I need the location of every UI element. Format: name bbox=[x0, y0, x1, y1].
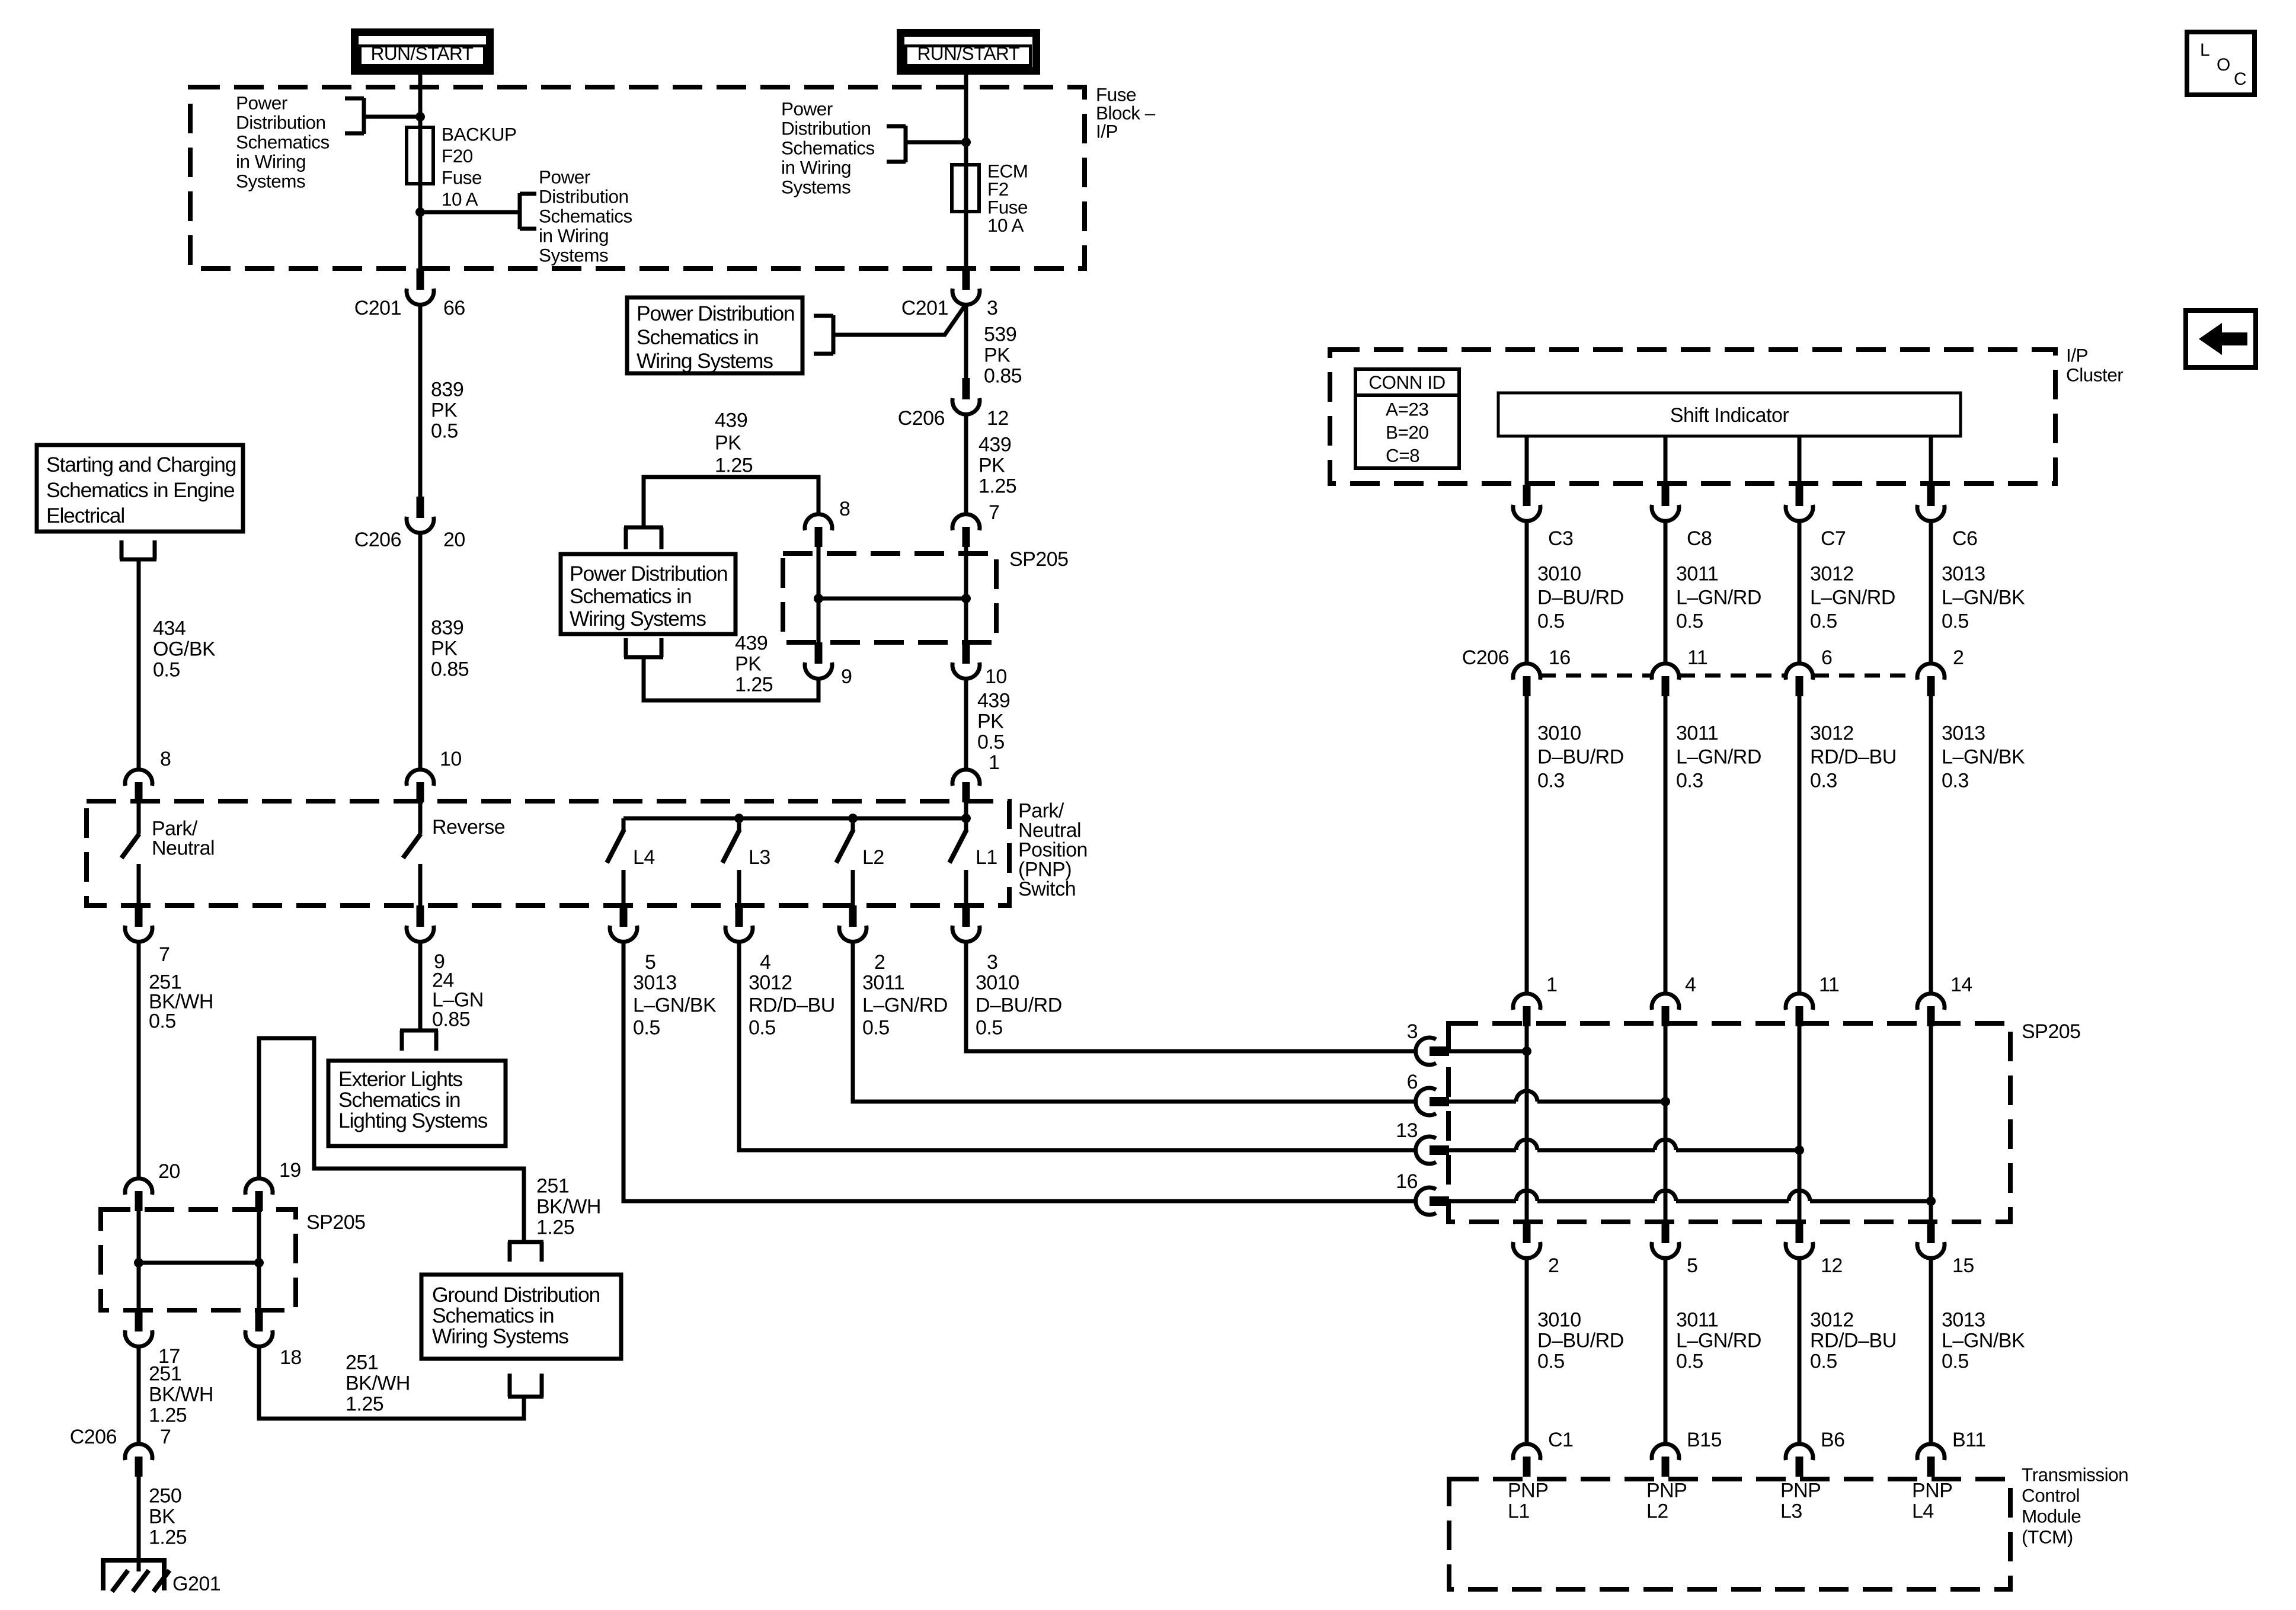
svg-text:PNP: PNP bbox=[1508, 1480, 1548, 1502]
svg-text:6: 6 bbox=[1407, 1071, 1418, 1093]
svg-text:1: 1 bbox=[989, 751, 999, 774]
connector C206 pin 16 (cluster row) bbox=[1513, 664, 1540, 680]
node splice row13 bbox=[1795, 1145, 1804, 1155]
svg-text:Cluster: Cluster bbox=[2066, 364, 2123, 386]
splice crossbar SP205 left bbox=[139, 1261, 259, 1265]
run/start label box (right) bbox=[901, 33, 1037, 71]
connector pin 19 into SP205 left bbox=[245, 1179, 273, 1195]
node bus at L1 bbox=[961, 814, 971, 823]
svg-text:I/P: I/P bbox=[1096, 121, 1118, 142]
svg-text:8: 8 bbox=[839, 498, 850, 520]
svg-text:Schematics in Engine: Schematics in Engine bbox=[46, 478, 235, 502]
switch L2 upper stub bbox=[851, 818, 855, 832]
wire through SP205 col 4 bbox=[1929, 1023, 1933, 1222]
svg-text:3011: 3011 bbox=[1676, 1309, 1718, 1331]
svg-text:19: 19 bbox=[279, 1159, 301, 1182]
svg-text:PK: PK bbox=[984, 344, 1011, 367]
svg-text:3011: 3011 bbox=[1676, 722, 1718, 745]
svg-text:Power: Power bbox=[236, 92, 287, 114]
svg-text:3010: 3010 bbox=[976, 972, 1019, 994]
svg-text:PK: PK bbox=[431, 638, 458, 660]
connector pin 1 into PNP switch bbox=[952, 770, 980, 786]
svg-text:Systems: Systems bbox=[539, 245, 608, 266]
svg-text:RUN/START: RUN/START bbox=[371, 43, 474, 64]
bracket to Power Distribution (right fuse) bbox=[904, 126, 908, 162]
svg-text:539: 539 bbox=[984, 324, 1016, 346]
wire 3010 D–BU/RD 0.5 (TCM) bbox=[1525, 1258, 1529, 1445]
wire through SP205 col 1 bbox=[1525, 1023, 1529, 1222]
svg-text:0.5: 0.5 bbox=[1537, 1350, 1565, 1373]
svg-text:CONN ID: CONN ID bbox=[1368, 372, 1446, 393]
wire 3012 L–GN/RD 0.5 (cluster) bbox=[1798, 521, 1802, 665]
connector pin 15 from SP205 bbox=[1927, 1222, 1935, 1243]
svg-text:Schematics in: Schematics in bbox=[338, 1088, 460, 1112]
svg-text:D–BU/RD: D–BU/RD bbox=[1537, 1330, 1624, 1352]
wire 839 PK 0.85 bbox=[418, 533, 423, 771]
svg-text:Neutral: Neutral bbox=[152, 837, 215, 860]
svg-text:1.25: 1.25 bbox=[149, 1526, 187, 1549]
switch L3 upper stub bbox=[737, 818, 741, 832]
svg-text:C201: C201 bbox=[901, 297, 948, 319]
svg-text:Exterior Lights: Exterior Lights bbox=[338, 1067, 462, 1091]
bus wire linking L1-L4 contacts bbox=[623, 817, 966, 821]
wire 3012 RD/D-BU 0.5 from L3 bbox=[739, 942, 1416, 1150]
svg-text:Module: Module bbox=[2022, 1506, 2081, 1527]
svg-text:Schematics in: Schematics in bbox=[432, 1304, 554, 1327]
svg-text:8: 8 bbox=[160, 748, 171, 770]
svg-text:Distribution: Distribution bbox=[236, 112, 326, 133]
svg-text:Schematics: Schematics bbox=[539, 206, 632, 227]
switch Reverse upper contact bbox=[418, 804, 423, 834]
svg-text:A=23: A=23 bbox=[1386, 399, 1428, 420]
connector TCM pin C1 bbox=[1513, 1444, 1540, 1460]
svg-text:D–BU/RD: D–BU/RD bbox=[1537, 746, 1624, 769]
connector pin 8 into SP205 bbox=[805, 514, 832, 530]
wire 434 OG/BK 0.5 bbox=[137, 559, 141, 771]
svg-text:0.5: 0.5 bbox=[1676, 1350, 1703, 1373]
svg-text:439: 439 bbox=[735, 632, 768, 655]
svg-text:PNP: PNP bbox=[1780, 1480, 1821, 1502]
svg-text:PK: PK bbox=[977, 710, 1004, 733]
splice row 13 to column 3 bbox=[1449, 1148, 1516, 1153]
svg-text:L4: L4 bbox=[1912, 1500, 1934, 1523]
svg-text:3: 3 bbox=[1407, 1020, 1418, 1043]
switch L2 lower contact bbox=[851, 870, 855, 907]
svg-text:Schematics: Schematics bbox=[236, 132, 330, 153]
node splice lower left A bbox=[134, 1258, 143, 1267]
wire 251 BK/WH 1.25 (pin 18 to ground box) bbox=[259, 1346, 524, 1419]
I/P cluster dashed box bbox=[1330, 350, 2055, 484]
svg-text:439: 439 bbox=[977, 690, 1010, 712]
svg-text:0.3: 0.3 bbox=[1676, 770, 1703, 792]
svg-text:L–GN/RD: L–GN/RD bbox=[1676, 587, 1761, 609]
svg-text:L4: L4 bbox=[633, 846, 655, 869]
connector pin 10 from SP205 bbox=[962, 642, 970, 664]
connector C6 below cluster bbox=[1927, 485, 1935, 506]
switch L4 blade bbox=[607, 830, 624, 863]
svg-text:PNP: PNP bbox=[1646, 1480, 1687, 1502]
pointer arrow box bbox=[2186, 311, 2256, 367]
wire 3013 L-GN/BK 0.5 from L4 bbox=[623, 942, 1416, 1201]
switch L4 lower contact bbox=[622, 870, 626, 907]
wire shift indicator leg C6 bbox=[1929, 436, 1933, 486]
svg-text:Control: Control bbox=[2022, 1485, 2080, 1506]
connector C201 pin 66 bbox=[417, 268, 424, 290]
svg-text:B11: B11 bbox=[1952, 1429, 1985, 1451]
connector C206 pin 12 bbox=[962, 378, 970, 399]
connector C206 pin 7 (ground col) bbox=[125, 1444, 152, 1460]
box Power Distribution Schematics in Wiring Systems (A) bbox=[627, 297, 802, 373]
svg-text:16: 16 bbox=[1549, 646, 1571, 669]
wire 439 PK 1.25 (to SP205) bbox=[964, 414, 968, 516]
svg-text:PNP: PNP bbox=[1912, 1480, 1952, 1502]
svg-text:3011: 3011 bbox=[862, 972, 904, 994]
connector TCM pin B15 bbox=[1652, 1444, 1679, 1460]
svg-text:20: 20 bbox=[158, 1160, 180, 1183]
svg-text:Wiring Systems: Wiring Systems bbox=[637, 349, 773, 373]
svg-text:Distribution: Distribution bbox=[781, 118, 871, 139]
svg-text:BK/WH: BK/WH bbox=[536, 1196, 601, 1218]
svg-text:66: 66 bbox=[443, 297, 465, 319]
switch Reverse lower contact bbox=[418, 864, 423, 907]
wire shift indicator leg C8 bbox=[1664, 436, 1668, 486]
svg-text:2: 2 bbox=[874, 951, 885, 974]
wire 251 BK/WH 1.25 (pin 17) bbox=[137, 1346, 141, 1445]
svg-text:251: 251 bbox=[346, 1352, 378, 1374]
svg-text:Schematics in: Schematics in bbox=[637, 325, 758, 349]
svg-text:3010: 3010 bbox=[1537, 563, 1581, 585]
connector pin 11 into SP205 bbox=[1786, 994, 1813, 1010]
svg-text:251: 251 bbox=[536, 1175, 569, 1198]
wire inside SP205 left leg bbox=[817, 547, 821, 642]
splice SP205 dashed box (right) bbox=[1448, 1023, 2010, 1222]
svg-text:0.5: 0.5 bbox=[431, 420, 458, 443]
wire through SP205 col 3 bbox=[1798, 1023, 1802, 1222]
svg-text:I/P: I/P bbox=[2066, 345, 2088, 366]
svg-text:Schematics: Schematics bbox=[781, 137, 875, 159]
node splice lower left B bbox=[254, 1258, 264, 1267]
svg-text:2: 2 bbox=[1953, 646, 1964, 669]
svg-text:3012: 3012 bbox=[1810, 722, 1854, 745]
svg-text:0.5: 0.5 bbox=[976, 1017, 1003, 1039]
svg-text:Reverse: Reverse bbox=[432, 816, 505, 838]
fuse F20 BACKUP bbox=[407, 127, 433, 184]
svg-text:L1: L1 bbox=[1508, 1500, 1530, 1523]
CONN ID table box bbox=[1355, 369, 1459, 468]
svg-text:439: 439 bbox=[715, 409, 747, 432]
connector pin 6 into SP205 right bbox=[1416, 1088, 1436, 1115]
svg-text:PK: PK bbox=[735, 653, 762, 676]
switch L3 blade bbox=[722, 830, 740, 863]
connector pin 17 from SP205 left bbox=[135, 1310, 143, 1331]
svg-text:1.25: 1.25 bbox=[978, 475, 1016, 498]
node splice row3 bbox=[1522, 1046, 1531, 1056]
splice SP205 dashed box (lower left) bbox=[101, 1209, 296, 1310]
wire 3012 RD/D–BU 0.5 (TCM) bbox=[1798, 1258, 1802, 1445]
svg-text:Schematics in: Schematics in bbox=[570, 584, 691, 608]
switch Park/Neutral blade bbox=[121, 834, 139, 858]
svg-text:BK: BK bbox=[149, 1506, 175, 1528]
diagonal wire to bracket bbox=[833, 304, 966, 335]
svg-text:PK: PK bbox=[431, 399, 458, 422]
svg-text:F20: F20 bbox=[442, 145, 473, 167]
wire 3010 D–BU/RD 0.5 (cluster) bbox=[1525, 521, 1529, 665]
wire SP205 right col inside bbox=[257, 1211, 261, 1311]
svg-text:C206: C206 bbox=[70, 1426, 117, 1448]
svg-text:251: 251 bbox=[149, 1363, 181, 1385]
switch L1 upper stub bbox=[964, 804, 968, 832]
svg-text:0.5: 0.5 bbox=[149, 1010, 176, 1033]
switch Reverse blade bbox=[403, 834, 421, 858]
svg-text:20: 20 bbox=[443, 529, 465, 551]
svg-text:RUN/START: RUN/START bbox=[917, 43, 1020, 64]
box Power Distribution Schematics in Wiring Systems (B) bbox=[561, 554, 736, 634]
Transmission Control Module dashed box bbox=[1449, 1479, 2010, 1589]
svg-text:11: 11 bbox=[1687, 646, 1707, 669]
svg-text:RD/D–BU: RD/D–BU bbox=[749, 994, 835, 1017]
wire to connector C201 pin 66 bbox=[418, 212, 423, 270]
svg-text:5: 5 bbox=[1687, 1254, 1697, 1277]
splice row 16 to column 4 bbox=[1449, 1199, 1516, 1204]
svg-text:D–BU/RD: D–BU/RD bbox=[1537, 587, 1624, 609]
svg-text:SP205: SP205 bbox=[306, 1211, 366, 1234]
connector TCM pin B6 bbox=[1786, 1444, 1813, 1460]
node splice row16 bbox=[1926, 1196, 1936, 1206]
bracket below Starting and Charging box bbox=[120, 540, 124, 559]
svg-text:Lighting Systems: Lighting Systems bbox=[338, 1109, 488, 1132]
dotted C206 connector line bbox=[1540, 674, 1652, 678]
node bus at L2 bbox=[848, 814, 858, 823]
connector TCM pin B11 bbox=[1917, 1444, 1945, 1460]
svg-text:BK/WH: BK/WH bbox=[149, 1384, 213, 1406]
connector pin 10 into PNP switch bbox=[407, 770, 434, 786]
svg-text:15: 15 bbox=[1952, 1254, 1974, 1277]
svg-text:C206: C206 bbox=[898, 407, 945, 430]
svg-text:10 A: 10 A bbox=[987, 215, 1024, 236]
svg-text:Fuse: Fuse bbox=[442, 167, 482, 188]
run/start label box (left) bbox=[355, 33, 490, 71]
svg-text:3010: 3010 bbox=[1537, 1309, 1581, 1331]
svg-text:Systems: Systems bbox=[781, 177, 850, 198]
svg-text:C: C bbox=[2234, 69, 2246, 89]
svg-text:Wiring Systems: Wiring Systems bbox=[570, 607, 706, 630]
connector pin 2 from SP205 bbox=[1523, 1222, 1531, 1243]
connector pin 16 into SP205 right bbox=[1416, 1188, 1436, 1215]
wire 3013 L–GN/BK 0.5 (TCM) bbox=[1929, 1258, 1933, 1445]
svg-text:16: 16 bbox=[1396, 1170, 1418, 1193]
svg-text:0.5: 0.5 bbox=[862, 1017, 890, 1039]
svg-text:4: 4 bbox=[1685, 974, 1696, 996]
svg-text:7: 7 bbox=[160, 1426, 171, 1448]
svg-text:L3: L3 bbox=[1780, 1500, 1802, 1523]
svg-text:3013: 3013 bbox=[1942, 722, 1985, 745]
svg-text:B=20: B=20 bbox=[1386, 422, 1428, 443]
wire to power distribution bracket 3 bbox=[907, 140, 966, 145]
svg-text:Starting and Charging: Starting and Charging bbox=[46, 453, 236, 476]
svg-text:SP205: SP205 bbox=[1009, 548, 1069, 571]
wire from RUN/START into fuse block bbox=[418, 75, 423, 127]
connector pin 7 below PNP bbox=[135, 905, 143, 927]
node junction above BACKUP fuse bbox=[415, 112, 425, 121]
switch Park/Neutral upper contact bbox=[137, 804, 141, 834]
svg-text:RD/D–BU: RD/D–BU bbox=[1810, 1330, 1897, 1352]
svg-text:C6: C6 bbox=[1952, 527, 1977, 550]
svg-text:3013: 3013 bbox=[1942, 1309, 1985, 1331]
svg-text:C201: C201 bbox=[354, 297, 401, 319]
wire from RUN/START 2 into fuse block bbox=[964, 75, 968, 165]
svg-text:18: 18 bbox=[280, 1346, 302, 1369]
svg-text:RD/D–BU: RD/D–BU bbox=[1810, 746, 1897, 769]
wire 439 PK 1.25 loop from pin 9 bbox=[644, 657, 818, 700]
svg-text:1.25: 1.25 bbox=[715, 454, 753, 477]
svg-text:Ground Distribution: Ground Distribution bbox=[432, 1283, 600, 1307]
svg-text:in Wiring: in Wiring bbox=[781, 157, 851, 178]
connector pin 3 into SP205 right bbox=[1416, 1038, 1436, 1065]
svg-text:Switch: Switch bbox=[1018, 878, 1076, 901]
svg-text:L–GN/BK: L–GN/BK bbox=[1942, 1330, 2025, 1352]
bracket above Ground Distribution box bbox=[508, 1240, 543, 1244]
svg-text:BK/WH: BK/WH bbox=[346, 1372, 410, 1395]
svg-text:Power Distribution: Power Distribution bbox=[637, 302, 794, 325]
svg-text:L–GN/RD: L–GN/RD bbox=[1676, 746, 1761, 769]
svg-text:3013: 3013 bbox=[633, 972, 677, 994]
svg-text:0.5: 0.5 bbox=[1676, 610, 1703, 633]
wire shift indicator leg C3 bbox=[1525, 436, 1529, 486]
connector C7 below cluster bbox=[1796, 485, 1803, 506]
bracket above Exterior Lights box bbox=[400, 1029, 438, 1033]
wire 539 PK 0.85 bbox=[964, 305, 968, 379]
wire 439 PK 0.5 bbox=[964, 678, 968, 771]
svg-text:Power: Power bbox=[781, 98, 833, 120]
svg-text:L–GN/BK: L–GN/BK bbox=[1942, 746, 2025, 769]
wire 251 BK/WH 0.5 bbox=[137, 942, 141, 1180]
svg-text:0.5: 0.5 bbox=[1810, 1350, 1837, 1373]
svg-text:10: 10 bbox=[985, 665, 1007, 688]
svg-text:14: 14 bbox=[1950, 974, 1972, 996]
svg-text:L2: L2 bbox=[1646, 1500, 1668, 1523]
svg-text:1.25: 1.25 bbox=[536, 1217, 574, 1239]
svg-text:L–GN/RD: L–GN/RD bbox=[1676, 1330, 1761, 1352]
node junction below BACKUP fuse bbox=[415, 207, 425, 217]
svg-text:1.25: 1.25 bbox=[149, 1404, 187, 1427]
wire 3010 D-BU/RD 0.5 from L1 bbox=[966, 942, 1416, 1051]
svg-text:0.5: 0.5 bbox=[1810, 610, 1837, 633]
connector pin 2 below PNP bbox=[849, 905, 857, 927]
connector C206 pin 6 (cluster row) bbox=[1786, 664, 1813, 680]
connector pin 3 below PNP bbox=[962, 905, 970, 927]
wire 3011 L–GN/RD 0.5 (TCM) bbox=[1664, 1258, 1668, 1445]
connector C206 pin 20 bbox=[417, 497, 424, 518]
svg-text:OG/BK: OG/BK bbox=[153, 638, 216, 661]
svg-text:Distribution: Distribution bbox=[539, 186, 629, 207]
svg-text:L: L bbox=[2200, 40, 2209, 60]
svg-text:B15: B15 bbox=[1687, 1429, 1722, 1451]
connector C206 pin 11 (cluster row) bbox=[1652, 664, 1679, 680]
shift indicator box bbox=[1498, 393, 1961, 436]
svg-text:L–GN/BK: L–GN/BK bbox=[1942, 587, 2025, 609]
wire through ECM fuse bbox=[964, 165, 968, 270]
svg-text:839: 839 bbox=[431, 617, 463, 639]
svg-text:10 A: 10 A bbox=[442, 188, 478, 210]
svg-text:Power Distribution: Power Distribution bbox=[570, 562, 727, 585]
wire 3013 L–GN/BK 0.3 bbox=[1929, 694, 1933, 995]
svg-text:1.25: 1.25 bbox=[735, 674, 773, 696]
wire 839 PK 0.5 bbox=[418, 305, 423, 498]
bracket below Ground Distribution box bbox=[508, 1374, 512, 1397]
node bus at L3 bbox=[734, 814, 744, 823]
connector pin 4 below PNP bbox=[736, 905, 743, 927]
svg-text:3: 3 bbox=[987, 951, 997, 974]
connector pin 5 from SP205 bbox=[1662, 1222, 1670, 1243]
connector C201 pin 3 bbox=[962, 268, 970, 290]
connector pin 5 below PNP bbox=[620, 905, 628, 927]
connector pin 14 into SP205 bbox=[1917, 994, 1945, 1010]
svg-text:4: 4 bbox=[760, 951, 770, 974]
svg-text:0.85: 0.85 bbox=[432, 1009, 470, 1031]
svg-text:BACKUP: BACKUP bbox=[442, 124, 517, 145]
svg-text:0.3: 0.3 bbox=[1942, 770, 1969, 792]
splice crossbar SP205 bbox=[818, 597, 966, 601]
svg-text:250: 250 bbox=[149, 1485, 181, 1507]
wire 3013 L–GN/BK 0.5 (cluster) bbox=[1929, 521, 1933, 665]
svg-text:Shift Indicator: Shift Indicator bbox=[1670, 404, 1789, 427]
svg-text:0.5: 0.5 bbox=[153, 659, 180, 681]
svg-text:Electrical: Electrical bbox=[46, 504, 124, 527]
node splice left bbox=[814, 594, 823, 603]
svg-text:O: O bbox=[2217, 55, 2230, 75]
connector pin 9 from SP205 bbox=[815, 642, 823, 664]
Park/Neutral Position switch dashed box bbox=[87, 801, 1009, 905]
connector pin 1 into SP205 bbox=[1513, 994, 1540, 1010]
svg-text:11: 11 bbox=[1819, 974, 1839, 996]
svg-text:13: 13 bbox=[1396, 1119, 1418, 1142]
svg-text:L–GN/RD: L–GN/RD bbox=[1810, 587, 1895, 609]
switch L2 blade bbox=[836, 830, 853, 863]
bracket to Power Distribution (below fuse) bbox=[518, 193, 522, 229]
connector pin 4 into SP205 bbox=[1652, 994, 1679, 1010]
connector C206 pin 2 (cluster row) bbox=[1917, 664, 1945, 680]
location key box L O C bbox=[2187, 32, 2255, 95]
switch L4 upper stub bbox=[622, 818, 626, 832]
connector pin 12 from SP205 bbox=[1796, 1222, 1803, 1243]
svg-text:3010: 3010 bbox=[1537, 722, 1581, 745]
svg-text:0.3: 0.3 bbox=[1810, 770, 1837, 792]
wire SP205 left col inside bbox=[137, 1211, 141, 1311]
bracket to Power Distribution box A bbox=[832, 315, 836, 354]
splice row 3 to column 1 bbox=[1449, 1049, 1527, 1054]
svg-text:L1: L1 bbox=[976, 846, 997, 869]
svg-text:0.5: 0.5 bbox=[1537, 610, 1565, 633]
svg-text:D–BU/RD: D–BU/RD bbox=[976, 994, 1062, 1017]
svg-text:0.3: 0.3 bbox=[1537, 770, 1565, 792]
svg-text:5: 5 bbox=[645, 951, 655, 974]
connector pin 20 into SP205 left bbox=[125, 1179, 152, 1195]
svg-text:2: 2 bbox=[1548, 1254, 1559, 1277]
box Ground Distribution Schematics in Wiring Systems bbox=[421, 1275, 621, 1359]
svg-text:10: 10 bbox=[440, 748, 462, 770]
wire 3011 L-GN/RD 0.5 from L2 bbox=[853, 942, 1416, 1102]
svg-text:Transmission: Transmission bbox=[2022, 1464, 2128, 1486]
splice SP205 dashed box (middle) bbox=[783, 553, 996, 642]
svg-text:3012: 3012 bbox=[1810, 1309, 1854, 1331]
svg-text:L–GN/BK: L–GN/BK bbox=[633, 994, 717, 1017]
wire shift indicator leg C7 bbox=[1798, 436, 1802, 486]
svg-text:C206: C206 bbox=[354, 529, 401, 551]
wire 250 BK 1.25 bbox=[137, 1477, 141, 1571]
wire through SP205 col 2 bbox=[1664, 1023, 1668, 1222]
svg-text:PK: PK bbox=[715, 432, 741, 454]
svg-text:L2: L2 bbox=[862, 846, 884, 869]
